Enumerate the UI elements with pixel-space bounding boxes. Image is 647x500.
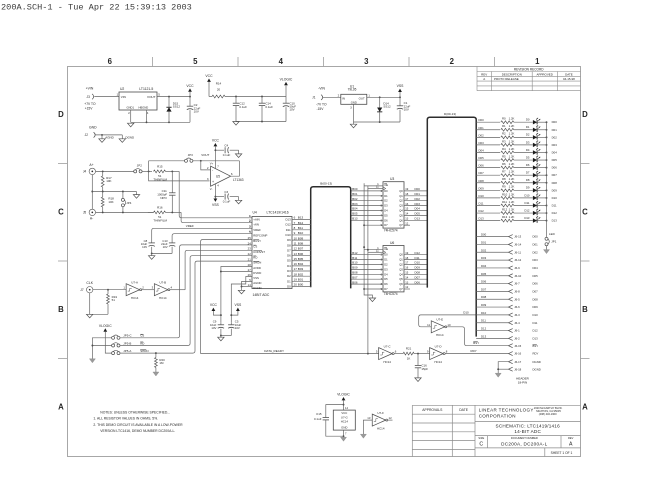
svg-text:JP4: JP4 xyxy=(126,201,131,205)
svg-text:J6-17: J6-17 xyxy=(514,360,521,364)
svg-text:REVISION RECORD: REVISION RECORD xyxy=(514,67,544,71)
wire U3 input pin 3 xyxy=(351,195,383,197)
svg-text:JP5-B: JP5-B xyxy=(123,341,131,345)
svg-text:R0: R0 xyxy=(502,117,506,121)
svg-text:R13: R13 xyxy=(502,215,508,219)
svg-text:19: 19 xyxy=(294,278,298,282)
wire op-amp output to feedback xyxy=(231,161,240,176)
capacitor C15 0.1uF xyxy=(326,405,344,418)
svg-text:D01: D01 xyxy=(415,192,421,196)
svg-text:1.2K: 1.2K xyxy=(509,170,515,174)
header pin J6-12 xyxy=(509,258,513,262)
svg-text:THINFILM: THINFILM xyxy=(153,177,167,181)
wire header row D12 xyxy=(476,330,508,332)
ground LED return xyxy=(544,250,550,254)
wire ADC data bit B06 xyxy=(292,255,311,257)
wire JP1 to ground xyxy=(546,246,548,250)
VCC power tag above C2 xyxy=(188,88,192,91)
capacitor C10 10uF 10V xyxy=(285,97,287,104)
svg-text:PROTO RELEASE: PROTO RELEASE xyxy=(494,77,519,81)
svg-text:R10: R10 xyxy=(502,192,508,196)
resistor R6 1.2K xyxy=(501,166,514,169)
ground CLK xyxy=(87,314,93,318)
wire ADC data bit B08 xyxy=(292,244,311,246)
svg-text:10V: 10V xyxy=(235,326,240,330)
svg-text:R6: R6 xyxy=(502,162,506,166)
wire LED D1 cathode xyxy=(537,129,546,131)
svg-text:U7-E: U7-E xyxy=(436,318,443,322)
svg-text:D05: D05 xyxy=(415,212,421,216)
svg-text:D13: D13 xyxy=(481,334,487,338)
svg-text:3: 3 xyxy=(364,57,369,66)
wire R0 to LED xyxy=(514,121,533,123)
svg-text:CLK: CLK xyxy=(86,281,93,285)
wire LED row D09 xyxy=(476,189,500,191)
svg-text:JP5-A: JP5-A xyxy=(123,349,131,353)
wire U1 OUT to VSS xyxy=(367,96,400,98)
svg-text:LT1121-5: LT1121-5 xyxy=(139,87,153,91)
wire U6 input pin 5 xyxy=(351,268,383,270)
svg-text:0.1uF: 0.1uF xyxy=(265,105,273,109)
wire header row D02 xyxy=(476,251,508,253)
wire header row D06 xyxy=(476,283,508,285)
resistor R20 1M xyxy=(155,353,157,357)
svg-text:U7-A: U7-A xyxy=(131,281,138,285)
svg-text:VSS: VSS xyxy=(235,303,243,307)
svg-text:D8: D8 xyxy=(287,243,291,247)
LED D3 xyxy=(533,143,537,147)
svg-text:J6-14: J6-14 xyxy=(514,243,521,247)
svg-text:B06: B06 xyxy=(298,252,304,256)
ground below U2 xyxy=(128,123,134,127)
svg-text:D02: D02 xyxy=(533,250,539,254)
svg-text:12: 12 xyxy=(405,221,409,225)
wire to +input branch xyxy=(149,171,210,181)
wire ADC data bit B10 xyxy=(292,234,311,236)
svg-text:D06: D06 xyxy=(479,164,485,168)
svg-text:HC14: HC14 xyxy=(159,296,167,300)
svg-text:14BIT ADC: 14BIT ADC xyxy=(253,293,270,297)
svg-text:JP1: JP1 xyxy=(551,240,556,244)
wire feedback to -input xyxy=(201,161,211,170)
inverter U7-E xyxy=(431,321,445,333)
svg-text:12: 12 xyxy=(389,416,393,420)
VLOGIC power tag U7 xyxy=(342,397,346,400)
svg-text:1.2K: 1.2K xyxy=(509,192,515,196)
svg-text:51: 51 xyxy=(112,298,116,302)
svg-text:15: 15 xyxy=(294,257,298,261)
wire U3 input pin 6 xyxy=(351,210,383,212)
svg-text:D04: D04 xyxy=(533,266,539,270)
connector J5 A- BNC xyxy=(89,209,95,215)
wire CS net xyxy=(120,245,252,338)
capacitor C11 1000pF NPO xyxy=(171,171,173,192)
connector J1 -VIN input xyxy=(321,95,323,100)
svg-text:D0: D0 xyxy=(287,284,291,288)
wire BUSY net xyxy=(201,240,252,354)
svg-text:GND: GND xyxy=(351,100,357,104)
wire U6 output pin 18 xyxy=(404,259,427,261)
wire header row D08 xyxy=(476,298,508,300)
wire AGND to DGND xyxy=(242,282,253,287)
svg-text:C3: C3 xyxy=(224,190,228,194)
jumper JP4 xyxy=(122,192,124,199)
svg-text:SCHEMATIC: LTC1419/1416: SCHEMATIC: LTC1419/1416 xyxy=(496,423,561,428)
wire D10 to U7-E input xyxy=(419,315,477,327)
wire LED D5 cathode xyxy=(537,159,546,161)
svg-text:C4: C4 xyxy=(224,143,228,147)
svg-text:B: B xyxy=(58,305,64,314)
svg-text:D6: D6 xyxy=(384,282,388,286)
svg-text:74HC574: 74HC574 xyxy=(384,228,398,232)
svg-text:AGND: AGND xyxy=(253,281,261,285)
svg-text:VSS: VSS xyxy=(212,203,220,207)
wire LED D9 cathode xyxy=(537,189,546,191)
svg-text:B08: B08 xyxy=(298,241,304,245)
wire R2 to LED xyxy=(514,136,533,138)
header pin J6-8 xyxy=(509,289,513,293)
svg-text:-7V TO: -7V TO xyxy=(316,103,327,107)
svg-text:11: 11 xyxy=(427,323,430,327)
svg-text:D12: D12 xyxy=(533,329,539,333)
resistor R5 1.2K xyxy=(501,159,514,162)
wire DATA_READY xyxy=(201,353,379,355)
svg-text:R16: R16 xyxy=(157,205,163,209)
svg-text:18: 18 xyxy=(405,256,409,260)
svg-text:U7-F: U7-F xyxy=(377,411,384,415)
svg-text:Q4: Q4 xyxy=(399,209,403,213)
wire U6 pin 9 to OE rail xyxy=(364,288,383,290)
wire header row D01 xyxy=(476,243,508,245)
latch U6 74HC574 xyxy=(383,246,404,292)
svg-text:10V: 10V xyxy=(404,107,409,111)
svg-text:J6-9: J6-9 xyxy=(514,266,520,270)
svg-text:D02: D02 xyxy=(481,248,487,252)
wire LED D2 cathode xyxy=(537,136,546,138)
svg-text:R11: R11 xyxy=(502,200,507,204)
svg-text:B: B xyxy=(582,305,588,314)
header pin J6-11 xyxy=(509,250,513,254)
wire LED row D12 xyxy=(476,212,500,214)
wire ADC data bit B11 xyxy=(292,229,311,231)
wire header row D07 xyxy=(476,290,508,292)
wire U7-D output RDY xyxy=(445,353,508,355)
svg-text:SIZE: SIZE xyxy=(478,436,484,440)
svg-text:0.1uF: 0.1uF xyxy=(314,417,322,421)
wire U3 output pin 17 xyxy=(404,200,427,202)
header pin J6-4 xyxy=(509,321,513,325)
header pin J6-3 xyxy=(509,313,513,317)
wire decoupling ground rail xyxy=(221,335,231,337)
wire J1 to U1 IN xyxy=(323,96,341,98)
svg-text:18: 18 xyxy=(294,272,298,276)
svg-text:200A.SCH-1 - Tue Apr 22 15:39:: 200A.SCH-1 - Tue Apr 22 15:39:13 2003 xyxy=(1,3,192,13)
svg-text:J6-1: J6-1 xyxy=(514,329,520,333)
wire to feedback top branch xyxy=(148,161,150,172)
svg-text:11: 11 xyxy=(294,241,297,245)
wire U6 input pin 8 xyxy=(351,283,383,285)
svg-text:RDY: RDY xyxy=(471,349,477,353)
svg-text:Q5: Q5 xyxy=(399,213,403,217)
svg-text:U7-C: U7-C xyxy=(384,345,392,349)
resistor R8 1.2K xyxy=(501,181,514,184)
ground jumpers xyxy=(89,359,95,363)
wire JP2 to R15 and opamp +input xyxy=(142,170,152,172)
connector J2 GND input xyxy=(94,132,96,137)
header pin J6-6 xyxy=(509,305,513,309)
wire ADC data bit B09 xyxy=(292,239,311,241)
wire U7-C to R21 xyxy=(394,353,403,355)
wire RD net xyxy=(120,256,252,346)
wire VCC tag to C9 xyxy=(213,311,221,315)
resistor R13 1.2K xyxy=(501,219,514,222)
svg-text:10: 10 xyxy=(294,236,298,240)
svg-text:C: C xyxy=(479,441,483,447)
svg-text:D05: D05 xyxy=(479,156,485,160)
svg-text:D04: D04 xyxy=(481,264,487,268)
resistor R0 1.2K xyxy=(501,121,514,124)
header pin J6-18 DGND xyxy=(509,367,513,371)
svg-text:-15V: -15V xyxy=(317,107,325,111)
capacitor C2 22uF 10V xyxy=(189,96,191,98)
wire U6 output pin 16 xyxy=(404,268,427,270)
wire LED row D03 xyxy=(476,144,500,146)
svg-text:D0: D0 xyxy=(526,118,530,122)
svg-text:D03: D03 xyxy=(415,202,421,206)
wire LED row D04 xyxy=(476,151,500,153)
svg-text:J6-10: J6-10 xyxy=(514,274,521,278)
capacitor C14 0.1uF xyxy=(261,97,263,104)
svg-text:R8: R8 xyxy=(502,177,506,181)
wire R13 to LED xyxy=(514,220,533,222)
svg-text:D0: D0 xyxy=(384,253,388,257)
jumper JP3 xyxy=(185,159,188,162)
svg-text:HC14: HC14 xyxy=(377,426,385,430)
svg-text:B01: B01 xyxy=(352,192,358,196)
LED D12 xyxy=(533,211,537,215)
VCC power tag decoupling xyxy=(212,308,216,311)
svg-text:15: 15 xyxy=(405,207,409,211)
svg-text:J6-15: J6-15 xyxy=(514,344,521,348)
svg-text:D10: D10 xyxy=(479,194,485,198)
svg-text:Q3: Q3 xyxy=(399,204,403,208)
svg-text:D3: D3 xyxy=(287,269,291,273)
wire to DGND xyxy=(121,135,123,139)
wire U3 output pin 13 xyxy=(404,219,427,221)
wire BNC shield link xyxy=(91,175,93,209)
svg-text:U4: U4 xyxy=(253,211,257,215)
wire AVDD net xyxy=(221,267,252,323)
svg-text:D0: D0 xyxy=(384,189,388,193)
wire U2 VOUT to VCC xyxy=(157,96,190,98)
svg-text:U7-B: U7-B xyxy=(159,281,166,285)
svg-text:J6-18: J6-18 xyxy=(514,367,521,371)
svg-text:REFCOMP: REFCOMP xyxy=(253,233,267,237)
wire R5 to LED xyxy=(514,159,533,161)
capacitor C5 10uF 10V xyxy=(228,324,234,326)
svg-text:1.2K: 1.2K xyxy=(509,147,515,151)
svg-text:D02: D02 xyxy=(415,197,421,201)
ground latch OE xyxy=(369,298,375,302)
svg-text:04-15-98: 04-15-98 xyxy=(563,77,575,81)
svg-text:16: 16 xyxy=(294,262,298,266)
svg-text:A-: A- xyxy=(90,217,93,221)
capacitor C4 0.1uF xyxy=(215,149,224,151)
svg-text:1.2K: 1.2K xyxy=(509,215,515,219)
wire U6 input pin 2 xyxy=(351,254,383,256)
svg-text:D06: D06 xyxy=(552,166,558,170)
svg-text:13: 13 xyxy=(405,217,409,221)
wire J4 to JP2 xyxy=(96,170,134,172)
zone ticks left xyxy=(58,163,67,165)
svg-text:R1: R1 xyxy=(502,124,506,128)
svg-text:Q7: Q7 xyxy=(399,287,403,291)
svg-text:D9: D9 xyxy=(287,238,291,242)
op-amp U5 LT1363 xyxy=(211,166,231,186)
wire U3 pin 12 stub xyxy=(404,224,410,226)
resistor R15 51 THINFILM xyxy=(154,170,166,173)
svg-text:R9: R9 xyxy=(502,185,506,189)
wire R3 to LED xyxy=(514,144,533,146)
capacitor C9 10uF 10V xyxy=(218,324,224,326)
svg-text:+15V: +15V xyxy=(85,107,94,111)
capacitor C16 15pF xyxy=(417,354,419,366)
svg-text:1K: 1K xyxy=(407,357,411,361)
resistor R11 1.2K xyxy=(501,204,514,207)
svg-text:D11: D11 xyxy=(415,256,421,260)
svg-text:14: 14 xyxy=(405,275,409,279)
svg-text:D04: D04 xyxy=(479,148,485,152)
svg-text:D2: D2 xyxy=(384,199,388,203)
wire to AGND xyxy=(101,135,103,139)
svg-text:D7: D7 xyxy=(384,223,388,227)
svg-text:VLOGIC: VLOGIC xyxy=(99,324,112,328)
svg-text:GND: GND xyxy=(89,125,97,129)
svg-text:NOTES: UNLESS OTHERWISE SPECIF: NOTES: UNLESS OTHERWISE SPECIFIED... xyxy=(100,411,170,415)
zone ticks right xyxy=(581,163,590,165)
svg-text:J6-3: J6-3 xyxy=(514,313,520,317)
svg-text:10V: 10V xyxy=(289,108,294,112)
svg-text:D12: D12 xyxy=(552,211,558,215)
svg-text:APPROVALS: APPROVALS xyxy=(422,408,443,412)
svg-text:SS12: SS12 xyxy=(173,105,181,109)
wire R12 to LED xyxy=(514,212,533,214)
ground C4 xyxy=(238,150,240,154)
svg-text:Q1: Q1 xyxy=(399,258,403,262)
svg-text:J6-4: J6-4 xyxy=(514,321,520,325)
wire VLOGIC to U7 pin 14 xyxy=(343,400,345,410)
svg-text:D09: D09 xyxy=(481,303,487,307)
wire J3 to U2 VIN xyxy=(94,96,119,98)
svg-text:5: 5 xyxy=(193,57,198,66)
svg-text:D12: D12 xyxy=(481,327,487,331)
resistor R7 1.2K xyxy=(501,174,514,177)
LED D1 xyxy=(533,128,537,132)
svg-text:Q2: Q2 xyxy=(399,263,403,267)
svg-text:D03: D03 xyxy=(479,141,485,145)
svg-text:+: + xyxy=(212,180,214,184)
svg-text:B07: B07 xyxy=(352,275,358,279)
svg-text:D01: D01 xyxy=(481,240,487,244)
regulator U2 LT1121-5 xyxy=(119,92,157,110)
svg-text:0.1uF: 0.1uF xyxy=(239,105,247,109)
wire U6 input pin 7 xyxy=(351,278,383,280)
LED D13 xyxy=(533,218,537,222)
capacitor C13 22uF 10V xyxy=(169,242,175,244)
svg-text:HC14: HC14 xyxy=(434,360,442,364)
VSS power tag decoupling xyxy=(236,308,240,311)
svg-text:1: 1 xyxy=(535,57,540,66)
svg-text:R5: R5 xyxy=(502,154,506,158)
wire R6 to LED xyxy=(514,167,533,169)
svg-text:B07: B07 xyxy=(298,247,304,251)
wire JP5-C/B left to ground xyxy=(92,338,111,359)
wire ADC data bit B01 xyxy=(292,280,311,282)
wire LED row D13 xyxy=(476,220,500,222)
svg-text:JP5-C: JP5-C xyxy=(123,334,132,338)
svg-text:AVDD: AVDD xyxy=(253,266,261,270)
svg-text:D06: D06 xyxy=(415,280,421,284)
header pin J6-9 xyxy=(509,266,513,270)
wire U3 pin 9 to OE rail xyxy=(364,224,383,226)
svg-text:R7: R7 xyxy=(502,170,506,174)
wire DVDD net xyxy=(221,271,252,273)
svg-text:1.2K: 1.2K xyxy=(509,154,515,158)
svg-text:10V: 10V xyxy=(194,109,199,113)
wire R1 to LED xyxy=(514,129,533,131)
svg-text:B00: B00 xyxy=(298,283,304,287)
svg-text:D5: D5 xyxy=(384,277,388,281)
wire LED row D10 xyxy=(476,197,500,199)
svg-text:A: A xyxy=(483,77,485,81)
svg-text:4: 4 xyxy=(279,57,284,66)
wire R21 to U7-D xyxy=(414,353,430,355)
wire header row D10 xyxy=(476,314,508,316)
wire R4 to LED xyxy=(514,151,533,153)
svg-text:D00: D00 xyxy=(479,118,485,122)
svg-text:LED: LED xyxy=(549,232,555,236)
border frame xyxy=(68,67,581,457)
svg-text:V+: V+ xyxy=(210,162,214,166)
svg-text:D12: D12 xyxy=(524,208,530,212)
inverter U7-C xyxy=(379,348,393,360)
svg-text:J6-8: J6-8 xyxy=(514,290,520,294)
svg-text:VSS: VSS xyxy=(397,84,405,88)
header pin J6-17 DGND xyxy=(509,360,513,364)
svg-text:B08: B08 xyxy=(352,271,358,275)
svg-text:Q6: Q6 xyxy=(399,218,403,222)
svg-text:D01: D01 xyxy=(533,243,539,247)
svg-text:B04: B04 xyxy=(298,262,304,266)
wire header row D00 xyxy=(476,236,508,238)
svg-text:17: 17 xyxy=(405,197,409,201)
resistor R10 1.2K xyxy=(501,197,514,200)
wire negative rail xyxy=(354,121,401,123)
svg-text:D02: D02 xyxy=(552,135,558,139)
svg-text:1M: 1M xyxy=(159,361,164,365)
svg-text:1. ALL RESISTOR VALUES IN OHMS: 1. ALL RESISTOR VALUES IN OHMS, 5%. xyxy=(93,417,158,421)
wire LED D13 cathode xyxy=(537,220,546,222)
capacitor C8 10uF 10V xyxy=(149,242,155,244)
wire VSS net xyxy=(231,277,252,323)
svg-text:U7-D: U7-D xyxy=(435,345,442,349)
svg-text:15pF: 15pF xyxy=(421,367,428,371)
svg-text:DC200A, DC200A-L: DC200A, DC200A-L xyxy=(501,441,548,446)
svg-text:10V: 10V xyxy=(142,245,147,249)
svg-text:DGND: DGND xyxy=(253,286,261,290)
svg-text:DATE: DATE xyxy=(459,408,468,412)
svg-text:DESCRIPTION: DESCRIPTION xyxy=(502,72,522,76)
